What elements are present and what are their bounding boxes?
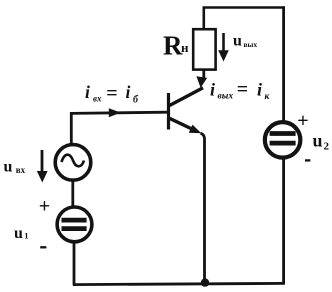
- svg-text:к: к: [265, 92, 271, 102]
- svg-text:u: u: [233, 33, 242, 50]
- svg-text:н: н: [181, 40, 189, 55]
- source U1 bottom plate: [62, 226, 87, 231]
- label minus of U1: [40, 246, 46, 248]
- svg-text:б: б: [133, 95, 139, 106]
- transistor Q1 collector lead: [170, 88, 204, 106]
- source U2 battery circle: [265, 122, 301, 158]
- svg-text:вых: вых: [218, 92, 234, 102]
- svg-text:u: u: [4, 159, 13, 176]
- source G1 sine mark: [62, 155, 85, 167]
- transistor Q1 emitter arrowhead: [189, 125, 202, 134]
- arrow i_вых (collector current): [196, 76, 207, 88]
- bottom rail wire: [73, 283, 285, 284]
- transistor Q1 emitter lead: [170, 118, 194, 129]
- svg-text:i: i: [85, 82, 90, 102]
- source U2 top plate: [270, 131, 296, 136]
- wire between AC source and U1: [71, 179, 74, 208]
- wire resistor top to top rail: [203, 8, 206, 31]
- svg-text:2: 2: [324, 141, 330, 153]
- wire emitter to bottom rail: [201, 133, 205, 284]
- wire base (input): [71, 112, 168, 113]
- junction node dot: [201, 278, 209, 286]
- wire U1 to bottom rail: [73, 242, 76, 285]
- svg-text:i: i: [126, 82, 131, 102]
- svg-text:1: 1: [24, 231, 28, 241]
- resistor R1 body: [193, 29, 215, 69]
- svg-text:=: =: [106, 83, 117, 105]
- source U2 bottom plate: [270, 141, 296, 146]
- svg-text:R: R: [163, 31, 183, 61]
- svg-text:+: +: [297, 110, 308, 132]
- wire left vertical upper: [70, 112, 73, 145]
- svg-text:вх: вх: [93, 94, 102, 104]
- source U1 battery circle: [57, 207, 92, 242]
- svg-text:=: =: [237, 79, 248, 101]
- wire right rail upper: [282, 6, 285, 122]
- svg-text:u: u: [313, 131, 323, 151]
- wire resistor bottom to collector node: [202, 69, 205, 78]
- wire right rail lower: [282, 158, 285, 285]
- svg-text:i: i: [257, 80, 262, 100]
- source G1 AC (u_вх) circle: [55, 145, 91, 181]
- source U1 top plate: [62, 218, 87, 223]
- svg-text:вх: вх: [16, 165, 26, 175]
- arrow u_вых: [222, 33, 225, 52]
- svg-text:i: i: [210, 80, 215, 100]
- wire top rail: [203, 6, 285, 9]
- arrow i_вх on base wire: [109, 108, 121, 117]
- arrow u_вх (down): [41, 150, 44, 173]
- label minus of U2: [305, 159, 310, 161]
- svg-text:u: u: [14, 225, 23, 242]
- transistor Q1 base bar: [167, 93, 170, 130]
- svg-text:+: +: [39, 195, 50, 217]
- svg-text:вых: вых: [244, 40, 258, 49]
